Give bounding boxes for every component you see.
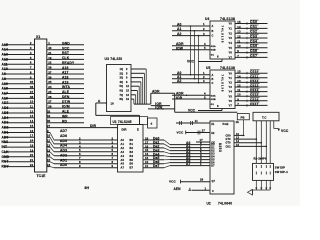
svg-text:26: 26 <box>48 95 52 99</box>
svg-text:U3 74LS5l: U3 74LS5l <box>105 57 123 61</box>
svg-text:Y4: Y4 <box>229 90 233 94</box>
svg-text:12: 12 <box>237 84 241 88</box>
svg-text:10: 10 <box>236 132 240 136</box>
svg-text:11: 11 <box>237 88 241 92</box>
svg-text:R2-2k4P8: R2-2k4P8 <box>254 157 267 161</box>
svg-text:AD7: AD7 <box>60 129 67 133</box>
svg-text:G1: G1 <box>211 104 215 106</box>
svg-text:Y7: Y7 <box>229 104 233 108</box>
svg-text:A18: A18 <box>62 76 69 80</box>
svg-text:VCC: VCC <box>187 60 195 64</box>
svg-text:1: 1 <box>205 186 207 190</box>
svg-text:B7: B7 <box>130 166 134 170</box>
svg-text:U1 74LS245: U1 74LS245 <box>113 120 132 124</box>
svg-text:C: C <box>212 82 214 85</box>
svg-text:RST: RST <box>62 51 69 55</box>
svg-text:A17: A17 <box>2 92 8 96</box>
svg-text:74LS138: 74LS138 <box>220 26 224 44</box>
svg-text:AD4: AD4 <box>2 116 9 120</box>
svg-text:G2A: G2A <box>211 45 216 48</box>
svg-text:AD2: AD2 <box>60 153 67 157</box>
svg-text:37: 37 <box>30 90 34 94</box>
svg-text:GND: GND <box>2 155 10 159</box>
svg-text:16: 16 <box>47 163 51 167</box>
svg-text:36: 36 <box>48 75 52 79</box>
svg-text:8253: 8253 <box>218 143 222 152</box>
svg-text:B0: B0 <box>130 138 134 142</box>
svg-text:27: 27 <box>202 129 206 133</box>
svg-text:CS15: CS15 <box>250 93 259 97</box>
svg-text:AEN: AEN <box>174 187 182 191</box>
svg-text:A13: A13 <box>2 53 8 57</box>
svg-text:CS2: CS2 <box>250 30 257 34</box>
svg-text:VCC: VCC <box>169 180 177 184</box>
svg-text:Y0: Y0 <box>229 22 233 26</box>
svg-text:NMI: NMI <box>2 140 8 144</box>
svg-text:7Q: 7Q <box>120 93 124 97</box>
svg-text:AD7: AD7 <box>2 101 9 105</box>
svg-text:14: 14 <box>236 139 240 143</box>
svg-text:40: 40 <box>48 46 52 50</box>
svg-text:VCC: VCC <box>281 129 289 133</box>
svg-text:B2: B2 <box>130 146 134 150</box>
svg-text:11: 11 <box>237 39 241 43</box>
svg-text:1Q: 1Q <box>120 67 124 71</box>
svg-text:B1: B1 <box>130 142 134 146</box>
svg-text:Y1: Y1 <box>229 76 233 80</box>
svg-text:READY: READY <box>62 61 75 65</box>
svg-text:35: 35 <box>48 80 52 84</box>
svg-text:B6: B6 <box>130 162 134 166</box>
svg-text:8Q: 8Q <box>120 97 124 101</box>
svg-text:12: 12 <box>30 109 34 113</box>
svg-text:45: 45 <box>47 119 51 123</box>
svg-text:d: d <box>151 122 153 126</box>
svg-text:16: 16 <box>30 129 34 133</box>
svg-text:6: 6 <box>217 55 219 59</box>
svg-text:AD1: AD1 <box>2 131 9 135</box>
svg-text:G1: G1 <box>211 55 215 57</box>
svg-text:ALE: ALE <box>62 110 70 114</box>
svg-text:28: 28 <box>48 105 52 109</box>
svg-text:TC1E: TC1E <box>37 174 47 178</box>
svg-text:21: 21 <box>48 51 52 55</box>
svg-text:B5: B5 <box>130 158 134 162</box>
svg-text:13: 13 <box>237 30 241 34</box>
svg-text:44: 44 <box>47 114 51 118</box>
svg-text:12: 12 <box>47 144 51 148</box>
svg-text:4Q: 4Q <box>120 80 124 84</box>
svg-text:A4: A4 <box>121 154 125 158</box>
svg-text:10: 10 <box>30 100 34 104</box>
svg-text:19: 19 <box>126 97 130 101</box>
svg-text:DIR: DIR <box>122 128 127 132</box>
svg-text:Q7: Q7 <box>212 180 216 183</box>
svg-text:A15: A15 <box>2 43 8 47</box>
svg-text:6: 6 <box>126 76 128 80</box>
svg-text:RST: RST <box>2 160 9 164</box>
svg-text:CS0: CS0 <box>250 20 257 24</box>
svg-text:11: 11 <box>195 119 198 123</box>
svg-text:CLK: CLK <box>62 56 70 60</box>
svg-text:13: 13 <box>47 148 51 152</box>
svg-text:Y6: Y6 <box>229 99 233 103</box>
svg-text:B4: B4 <box>130 154 134 158</box>
svg-text:22: 22 <box>48 61 52 65</box>
svg-text:24: 24 <box>30 139 34 143</box>
svg-text:14: 14 <box>237 74 241 78</box>
svg-text:19: 19 <box>30 148 34 152</box>
svg-text:CS11: CS11 <box>250 74 258 78</box>
svg-text:CS10: CS10 <box>250 70 259 74</box>
svg-text:15: 15 <box>30 124 34 128</box>
svg-text:26: 26 <box>200 178 204 182</box>
svg-text:AD3: AD3 <box>60 149 67 153</box>
svg-text:35: 35 <box>30 80 34 84</box>
svg-text:14: 14 <box>30 119 34 123</box>
svg-text:Y7: Y7 <box>229 56 233 60</box>
svg-text:A14: A14 <box>2 48 8 52</box>
svg-text:12: 12 <box>126 84 130 88</box>
svg-text:B: B <box>212 30 214 33</box>
svg-text:CS7: CS7 <box>250 54 257 58</box>
svg-text:15: 15 <box>126 89 130 93</box>
svg-text:CS17: CS17 <box>250 102 259 106</box>
svg-text:G2B: G2B <box>211 99 216 101</box>
svg-text:A: A <box>212 74 214 77</box>
svg-text:A2: A2 <box>177 79 182 83</box>
svg-text:RD: RD <box>62 119 68 123</box>
svg-text:2: 2 <box>126 67 128 71</box>
svg-text:VCC: VCC <box>177 130 185 134</box>
svg-text:15: 15 <box>47 158 51 162</box>
svg-text:A8: A8 <box>2 77 7 81</box>
svg-text:AD2: AD2 <box>2 126 9 130</box>
svg-text:A2: A2 <box>177 32 182 36</box>
svg-text:Da7: Da7 <box>153 164 160 168</box>
svg-text:3Q: 3Q <box>120 76 124 80</box>
svg-text:OT0: OT0 <box>226 142 232 145</box>
svg-text:Y5: Y5 <box>229 94 233 98</box>
svg-text:16: 16 <box>236 143 240 147</box>
svg-text:22: 22 <box>30 163 34 167</box>
svg-text:10: 10 <box>237 44 241 48</box>
svg-text:A3: A3 <box>121 150 125 154</box>
svg-text:Y3: Y3 <box>229 36 233 40</box>
svg-text:AD6: AD6 <box>2 106 9 110</box>
svg-text:AD1: AD1 <box>60 158 67 162</box>
svg-text:Y1: Y1 <box>229 27 233 31</box>
svg-text:27: 27 <box>48 100 52 104</box>
svg-text:CK1: CK1 <box>226 145 232 148</box>
svg-text:8H: 8H <box>85 186 90 190</box>
svg-text:INTA: INTA <box>62 85 70 89</box>
svg-text:15: 15 <box>237 20 241 24</box>
svg-text:38: 38 <box>30 95 34 99</box>
svg-text:VCC: VCC <box>62 46 70 50</box>
svg-text:CLK: CLK <box>2 150 10 154</box>
svg-text:RDY: RDY <box>2 165 10 169</box>
svg-text:19: 19 <box>48 56 52 60</box>
svg-text:14: 14 <box>47 153 51 157</box>
svg-text:A1: A1 <box>177 27 182 31</box>
svg-text:X2: X2 <box>211 132 215 135</box>
svg-text:10: 10 <box>47 134 51 138</box>
svg-text:U4: U4 <box>205 17 210 21</box>
svg-text:A2: A2 <box>121 146 125 150</box>
svg-text:A9: A9 <box>2 72 7 76</box>
svg-text:WR: WR <box>62 114 68 118</box>
svg-text:14: 14 <box>237 25 241 29</box>
svg-text:D7: D7 <box>211 165 215 168</box>
svg-text:A17: A17 <box>62 71 69 75</box>
svg-text:AD3: AD3 <box>2 121 9 125</box>
svg-text:A18: A18 <box>2 87 8 91</box>
svg-text:X1: X1 <box>211 123 215 126</box>
svg-text:A10: A10 <box>2 67 8 71</box>
svg-text:A7: A7 <box>121 166 125 170</box>
svg-text:PB: PB <box>241 115 245 119</box>
svg-text:A19: A19 <box>2 82 8 86</box>
svg-text:A11: A11 <box>2 62 8 66</box>
svg-text:74L0640: 74L0640 <box>218 201 232 205</box>
svg-text:INT: INT <box>2 145 8 149</box>
svg-text:E: E <box>137 128 139 132</box>
svg-text:AD5: AD5 <box>60 139 67 143</box>
svg-text:Y2: Y2 <box>229 81 233 85</box>
svg-text:B: B <box>212 78 214 81</box>
svg-text:Y5: Y5 <box>229 46 233 50</box>
svg-text:15: 15 <box>237 70 241 74</box>
svg-text:A16: A16 <box>2 96 8 100</box>
svg-text:U5: U5 <box>206 66 211 70</box>
svg-text:16: 16 <box>110 102 114 106</box>
svg-text:5Q: 5Q <box>120 84 124 88</box>
svg-text:A: A <box>212 25 214 28</box>
svg-text:5: 5 <box>126 71 128 75</box>
svg-text:27: 27 <box>47 124 51 128</box>
svg-text:IO/M: IO/M <box>62 105 70 109</box>
svg-text:25: 25 <box>48 90 52 94</box>
svg-text:18: 18 <box>30 144 34 148</box>
svg-text:PoB: PoB <box>223 122 229 126</box>
svg-text:G2A: G2A <box>211 94 216 97</box>
svg-text:CS6: CS6 <box>250 49 257 53</box>
svg-text:74LS138: 74LS138 <box>220 17 235 21</box>
svg-text:20: 20 <box>30 153 34 157</box>
svg-text:11: 11 <box>47 139 51 143</box>
svg-text:16: 16 <box>126 93 130 97</box>
svg-text:13: 13 <box>236 136 240 140</box>
svg-text:T.C: T.C <box>262 115 267 119</box>
svg-text:C: C <box>212 190 214 193</box>
svg-text:32: 32 <box>47 109 51 113</box>
svg-text:A12: A12 <box>2 57 8 61</box>
svg-text:IOR: IOR <box>176 96 183 100</box>
svg-text:CS4: CS4 <box>250 39 257 43</box>
svg-text:6: 6 <box>217 104 219 108</box>
svg-text:ALE: ALE <box>62 90 70 94</box>
svg-text:CK0: CK0 <box>226 134 232 137</box>
svg-text:CS13: CS13 <box>250 84 259 88</box>
svg-text:GT0: GT0 <box>226 138 232 141</box>
svg-text:B3: B3 <box>130 150 134 154</box>
svg-text:DEN: DEN <box>62 95 70 99</box>
svg-text:AD5: AD5 <box>2 111 9 115</box>
svg-text:A0: A0 <box>121 138 125 142</box>
svg-text:CS16: CS16 <box>250 97 259 101</box>
svg-text:36: 36 <box>30 85 34 89</box>
svg-text:SW DIP: SW DIP <box>275 166 285 170</box>
svg-text:6Q: 6Q <box>120 89 124 93</box>
svg-text:VCC: VCC <box>188 109 196 113</box>
svg-text:CS12: CS12 <box>250 79 259 83</box>
svg-text:24: 24 <box>48 85 52 89</box>
svg-text:X1: X1 <box>36 35 40 39</box>
svg-text:A16: A16 <box>62 66 69 70</box>
svg-text:A0: A0 <box>177 22 182 26</box>
svg-text:GND: GND <box>62 41 70 45</box>
svg-text:Y6: Y6 <box>229 51 233 55</box>
svg-text:CS14: CS14 <box>250 88 259 92</box>
svg-text:17: 17 <box>30 134 34 138</box>
svg-text:DT/R: DT/R <box>62 100 71 104</box>
svg-text:21: 21 <box>30 158 34 162</box>
svg-text:37: 37 <box>48 70 52 74</box>
svg-text:A1: A1 <box>121 142 125 146</box>
svg-text:1b: 1b <box>236 120 240 124</box>
svg-text:E: E <box>98 99 100 103</box>
svg-text:9: 9 <box>126 80 128 84</box>
svg-text:2Q: 2Q <box>120 71 124 75</box>
svg-text:CS1: CS1 <box>250 25 257 29</box>
svg-text:74LS138: 74LS138 <box>220 66 235 70</box>
svg-text:C: C <box>212 35 214 38</box>
svg-text:A19: A19 <box>62 80 69 84</box>
svg-text:Y2: Y2 <box>229 31 233 35</box>
svg-text:CS5: CS5 <box>250 44 257 48</box>
svg-text:Y3: Y3 <box>229 85 233 89</box>
svg-text:11: 11 <box>145 164 149 168</box>
svg-text:DIR: DIR <box>90 124 97 128</box>
svg-text:ADR: ADR <box>176 42 184 46</box>
svg-text:Y4: Y4 <box>229 41 233 45</box>
svg-text:U2: U2 <box>207 201 211 205</box>
svg-text:AD0: AD0 <box>60 163 67 167</box>
svg-text:A7: A7 <box>186 162 191 166</box>
svg-text:13: 13 <box>30 114 34 118</box>
svg-text:11: 11 <box>30 105 34 109</box>
svg-text:10: 10 <box>237 93 241 97</box>
svg-text:12: 12 <box>237 35 241 39</box>
svg-text:AD0: AD0 <box>2 135 9 139</box>
svg-text:IOW: IOW <box>176 47 184 51</box>
svg-text:AD6: AD6 <box>60 134 67 138</box>
svg-text:Y0: Y0 <box>229 71 233 75</box>
svg-text:13: 13 <box>237 79 241 83</box>
svg-text:74LS138: 74LS138 <box>220 75 224 93</box>
svg-text:38: 38 <box>48 66 52 70</box>
svg-text:CS3: CS3 <box>250 35 257 39</box>
svg-text:A6: A6 <box>121 162 125 166</box>
svg-text:SW DIP-4: SW DIP-4 <box>275 170 288 174</box>
svg-text:AD4: AD4 <box>60 144 67 148</box>
svg-text:G2B: G2B <box>211 50 216 52</box>
svg-text:A5: A5 <box>121 158 125 162</box>
